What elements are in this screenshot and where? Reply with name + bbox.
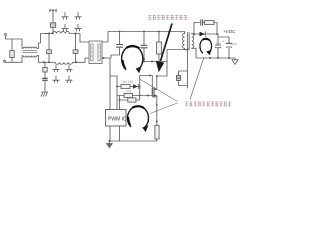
X-capacitor CX1 xyxy=(48,34,50,50)
wire L input xyxy=(6,36,23,39)
annotation arrowhead 3 xyxy=(142,125,148,132)
wire to bridge top xyxy=(70,34,89,43)
bridge rectifier BR1 xyxy=(89,41,102,64)
bottom rail xyxy=(110,140,157,142)
node dot xyxy=(75,61,77,63)
common-mode choke L1 xyxy=(21,39,23,49)
wire choke to bottom rail xyxy=(37,56,44,63)
clamp wire xyxy=(144,61,167,63)
wire gate feed xyxy=(140,75,153,77)
leader line to ellipse 2 xyxy=(190,57,204,100)
gate drive wire lower xyxy=(117,95,157,97)
secondary top wire xyxy=(192,33,218,35)
snubber capacitor C2 xyxy=(143,31,145,33)
feedback resistor R5 xyxy=(119,99,121,101)
leader line to diode area xyxy=(140,79,178,102)
node dot xyxy=(48,33,50,35)
svg-text:1N4148: 1N4148 xyxy=(121,80,133,84)
diode D2 xyxy=(133,84,138,89)
annotation arrowhead 1 xyxy=(136,66,142,73)
varistor RV1 xyxy=(11,39,13,51)
earth ground xyxy=(41,92,48,96)
node dot xyxy=(75,33,77,35)
node dot xyxy=(43,61,45,63)
output diode D1 xyxy=(200,32,206,37)
return branch wire xyxy=(110,76,117,110)
annotation ellipse 1 xyxy=(122,46,143,70)
wire to +VDC xyxy=(218,34,229,37)
ground triangle xyxy=(232,58,238,64)
bottom rail wire xyxy=(44,61,55,63)
X-capacitor CX2 xyxy=(75,34,77,50)
MOSFET Q1 xyxy=(151,89,153,97)
PWM IC U1 xyxy=(106,110,127,127)
aux RC loop xyxy=(179,71,188,76)
transformer T1 primary xyxy=(184,32,186,34)
node dot xyxy=(103,57,105,59)
wire clamp to drain xyxy=(166,50,168,77)
svg-text:+: + xyxy=(223,40,225,44)
svg-text:10R: 10R xyxy=(125,90,132,94)
svg-text:PWM IC: PWM IC xyxy=(108,117,127,123)
svg-text:104: 104 xyxy=(216,41,221,45)
bulk capacitor C1 xyxy=(119,31,121,33)
PWM top pin xyxy=(119,100,121,110)
wire primary bottom xyxy=(185,48,188,49)
output capacitor C3 xyxy=(217,37,219,58)
annotation text bottom xyxy=(185,102,231,107)
leader line to ellipse 3 xyxy=(150,103,178,114)
top rail wire xyxy=(44,33,52,35)
Y-cap to earth xyxy=(44,62,46,78)
wire bridge- to return xyxy=(102,58,110,141)
Y-capacitor group top row xyxy=(62,13,68,20)
inductor L3 xyxy=(55,62,73,64)
Y-capacitor group bottom row xyxy=(53,65,59,72)
secondary bottom wire xyxy=(192,48,233,58)
annotation arrowhead 2 xyxy=(206,50,211,56)
svg-text:22u: 22u xyxy=(232,42,238,46)
annotation ellipse 3 xyxy=(128,106,149,127)
wire vertical join xyxy=(139,76,141,101)
inductor L2 xyxy=(52,32,70,34)
electrolytic C4 xyxy=(228,37,230,43)
annotation text top xyxy=(148,15,187,19)
annotation ellipse 2 xyxy=(200,38,212,53)
sense resistor R4 xyxy=(156,96,158,125)
wire N input xyxy=(5,61,23,63)
PWM bottom pin xyxy=(119,126,121,141)
annotation big arrow xyxy=(161,24,173,62)
resistor R2 xyxy=(121,84,130,88)
wire choke to top rail xyxy=(37,34,49,49)
transformer T1 core xyxy=(187,33,189,50)
wire bridge+ to DC rail xyxy=(102,32,185,43)
wire to bridge bottom xyxy=(73,58,89,62)
AC plug terminal L xyxy=(5,34,7,36)
svg-text:+VDC: +VDC xyxy=(223,29,236,34)
resistor R3 xyxy=(124,93,133,97)
ground xyxy=(108,140,110,142)
transformer T1 secondary xyxy=(192,34,194,49)
AC plug terminal N xyxy=(4,60,6,62)
gate drive wire upper xyxy=(117,86,133,88)
snubber resistor R1 xyxy=(158,31,160,33)
output snubber loop xyxy=(194,23,200,35)
fuse F1 xyxy=(50,9,56,12)
